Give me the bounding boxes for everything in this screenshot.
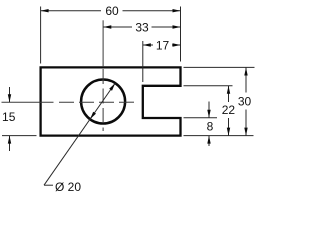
dimension 22 arrow up — [227, 86, 230, 94]
svg-text:33: 33 — [135, 20, 149, 34]
svg-text:60: 60 — [105, 4, 119, 18]
extension line notch wall (for dim 17) — [142, 41, 144, 82]
dimension 60 arrow left — [41, 9, 49, 12]
dimension 17 arrow right — [173, 43, 181, 46]
horizontal centerline of hole (solid left part, doubles as dim-15 extension) — [2, 101, 54, 103]
part outline (plate with right-side notch) — [41, 67, 181, 135]
leader arrow upper-right (at hole edge) — [109, 83, 115, 91]
svg-text:15: 15 — [2, 110, 16, 124]
svg-text:Ø 20: Ø 20 — [55, 180, 81, 194]
extension line notch bottom right (for dim 8) — [184, 117, 218, 119]
dimension 60 arrow right — [173, 9, 181, 12]
svg-text:8: 8 — [207, 119, 214, 133]
svg-text:30: 30 — [238, 94, 252, 108]
horizontal centerline of hole (dashed part through circle) — [59, 101, 135, 103]
dimension 30 line — [245, 68, 247, 136]
dimension 22 arrow down — [227, 128, 230, 136]
leader arrow lower-left (at hole edge) — [90, 112, 96, 120]
svg-text:22: 22 — [222, 103, 236, 117]
extension line left edge (for dim 60) — [40, 7, 42, 64]
dimension 8 upper arrow (outside, pointing down) — [208, 102, 210, 118]
extension line top edge right (for dim 30) — [184, 66, 255, 68]
extension line bottom edge left (for dim 15) — [2, 135, 37, 137]
dimension 33 line — [103, 26, 180, 28]
dimension 15 lower arrow (outside, pointing up) — [9, 136, 11, 151]
dimension 17 line — [143, 44, 181, 46]
dimension 8 lower arrow (outside, pointing up) — [208, 136, 210, 146]
dimension 33 arrow right — [173, 25, 181, 28]
dimension 17 arrow left — [143, 43, 151, 46]
svg-text:17: 17 — [156, 38, 170, 52]
extension line bottom edge right (for dims 30,22,8) — [184, 135, 254, 137]
dimension 33 arrow left — [103, 25, 111, 28]
extension line notch top right (for dim 22) — [184, 85, 233, 87]
leader line for Ø20 — [44, 83, 115, 185]
leader elbow tick — [44, 184, 53, 186]
vertical centerline of hole (solid upper part, extension for dim 33) — [102, 20, 104, 67]
extension line right edge (for dims 60,33,17) — [180, 7, 182, 62]
dimension 22 line — [228, 86, 230, 136]
dimension 60 line — [41, 10, 181, 12]
vertical centerline of hole (dashed part through circle) — [102, 69, 104, 131]
dimension 30 arrow down — [244, 128, 247, 136]
dimension 30 arrow up — [244, 68, 247, 76]
hole circle Ø20 — [81, 80, 125, 124]
dimension 15 upper arrow (outside, pointing down) — [9, 87, 11, 102]
